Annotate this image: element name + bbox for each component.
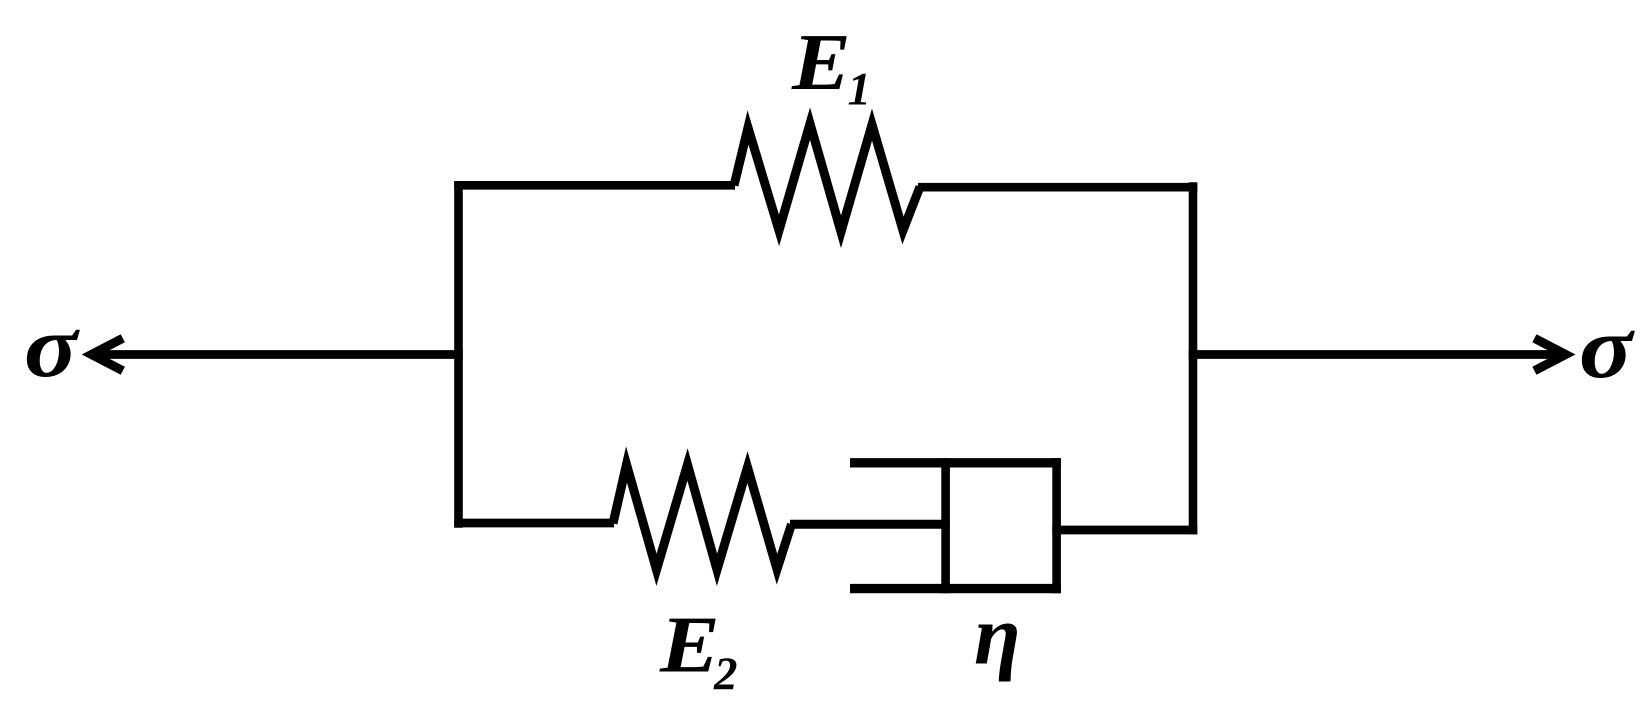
- dashpot eta: cylinder top wall: [850, 458, 1061, 467]
- svg-text:σ: σ: [1579, 299, 1635, 396]
- wire: left stress shaft: [92, 350, 463, 359]
- wire: output rod (dashpot to right bar): [1052, 526, 1197, 535]
- label sigma (left): [24, 298, 80, 395]
- wire: piston rod (spring E2 to dashpot piston plate): [790, 520, 950, 529]
- label E1: [791, 19, 851, 107]
- arrowhead: right sigma arrow: [1534, 338, 1565, 370]
- spring E1 zigzag: [734, 124, 920, 232]
- label E2: [659, 601, 720, 690]
- wire: top-left horizontal (left bar to spring E1): [454, 181, 735, 190]
- dashpot eta: cylinder bottom wall: [850, 584, 1061, 593]
- svg-text:E: E: [659, 601, 720, 690]
- svg-text:E: E: [791, 19, 851, 107]
- wire: right stress shaft: [1189, 350, 1565, 359]
- wire: top-right horizontal (spring E1 to right bar): [918, 183, 1197, 192]
- right vertical bar (parallel branch junction): [1189, 182, 1198, 534]
- arrowhead: left sigma arrow: [92, 338, 123, 370]
- spring E2 zigzag: [613, 465, 792, 570]
- wire: bottom-left horizontal (left bar to spring E2): [454, 519, 614, 528]
- left vertical bar (parallel branch junction): [454, 181, 463, 528]
- svg-text:σ: σ: [24, 298, 80, 395]
- dashpot eta: piston plate: [941, 458, 950, 593]
- label sigma (right): [1579, 299, 1635, 396]
- dashpot eta: cylinder right wall: [1052, 458, 1061, 593]
- svg-text:η: η: [974, 589, 1021, 683]
- svg-text:1: 1: [848, 64, 872, 116]
- svg-text:2: 2: [713, 648, 738, 700]
